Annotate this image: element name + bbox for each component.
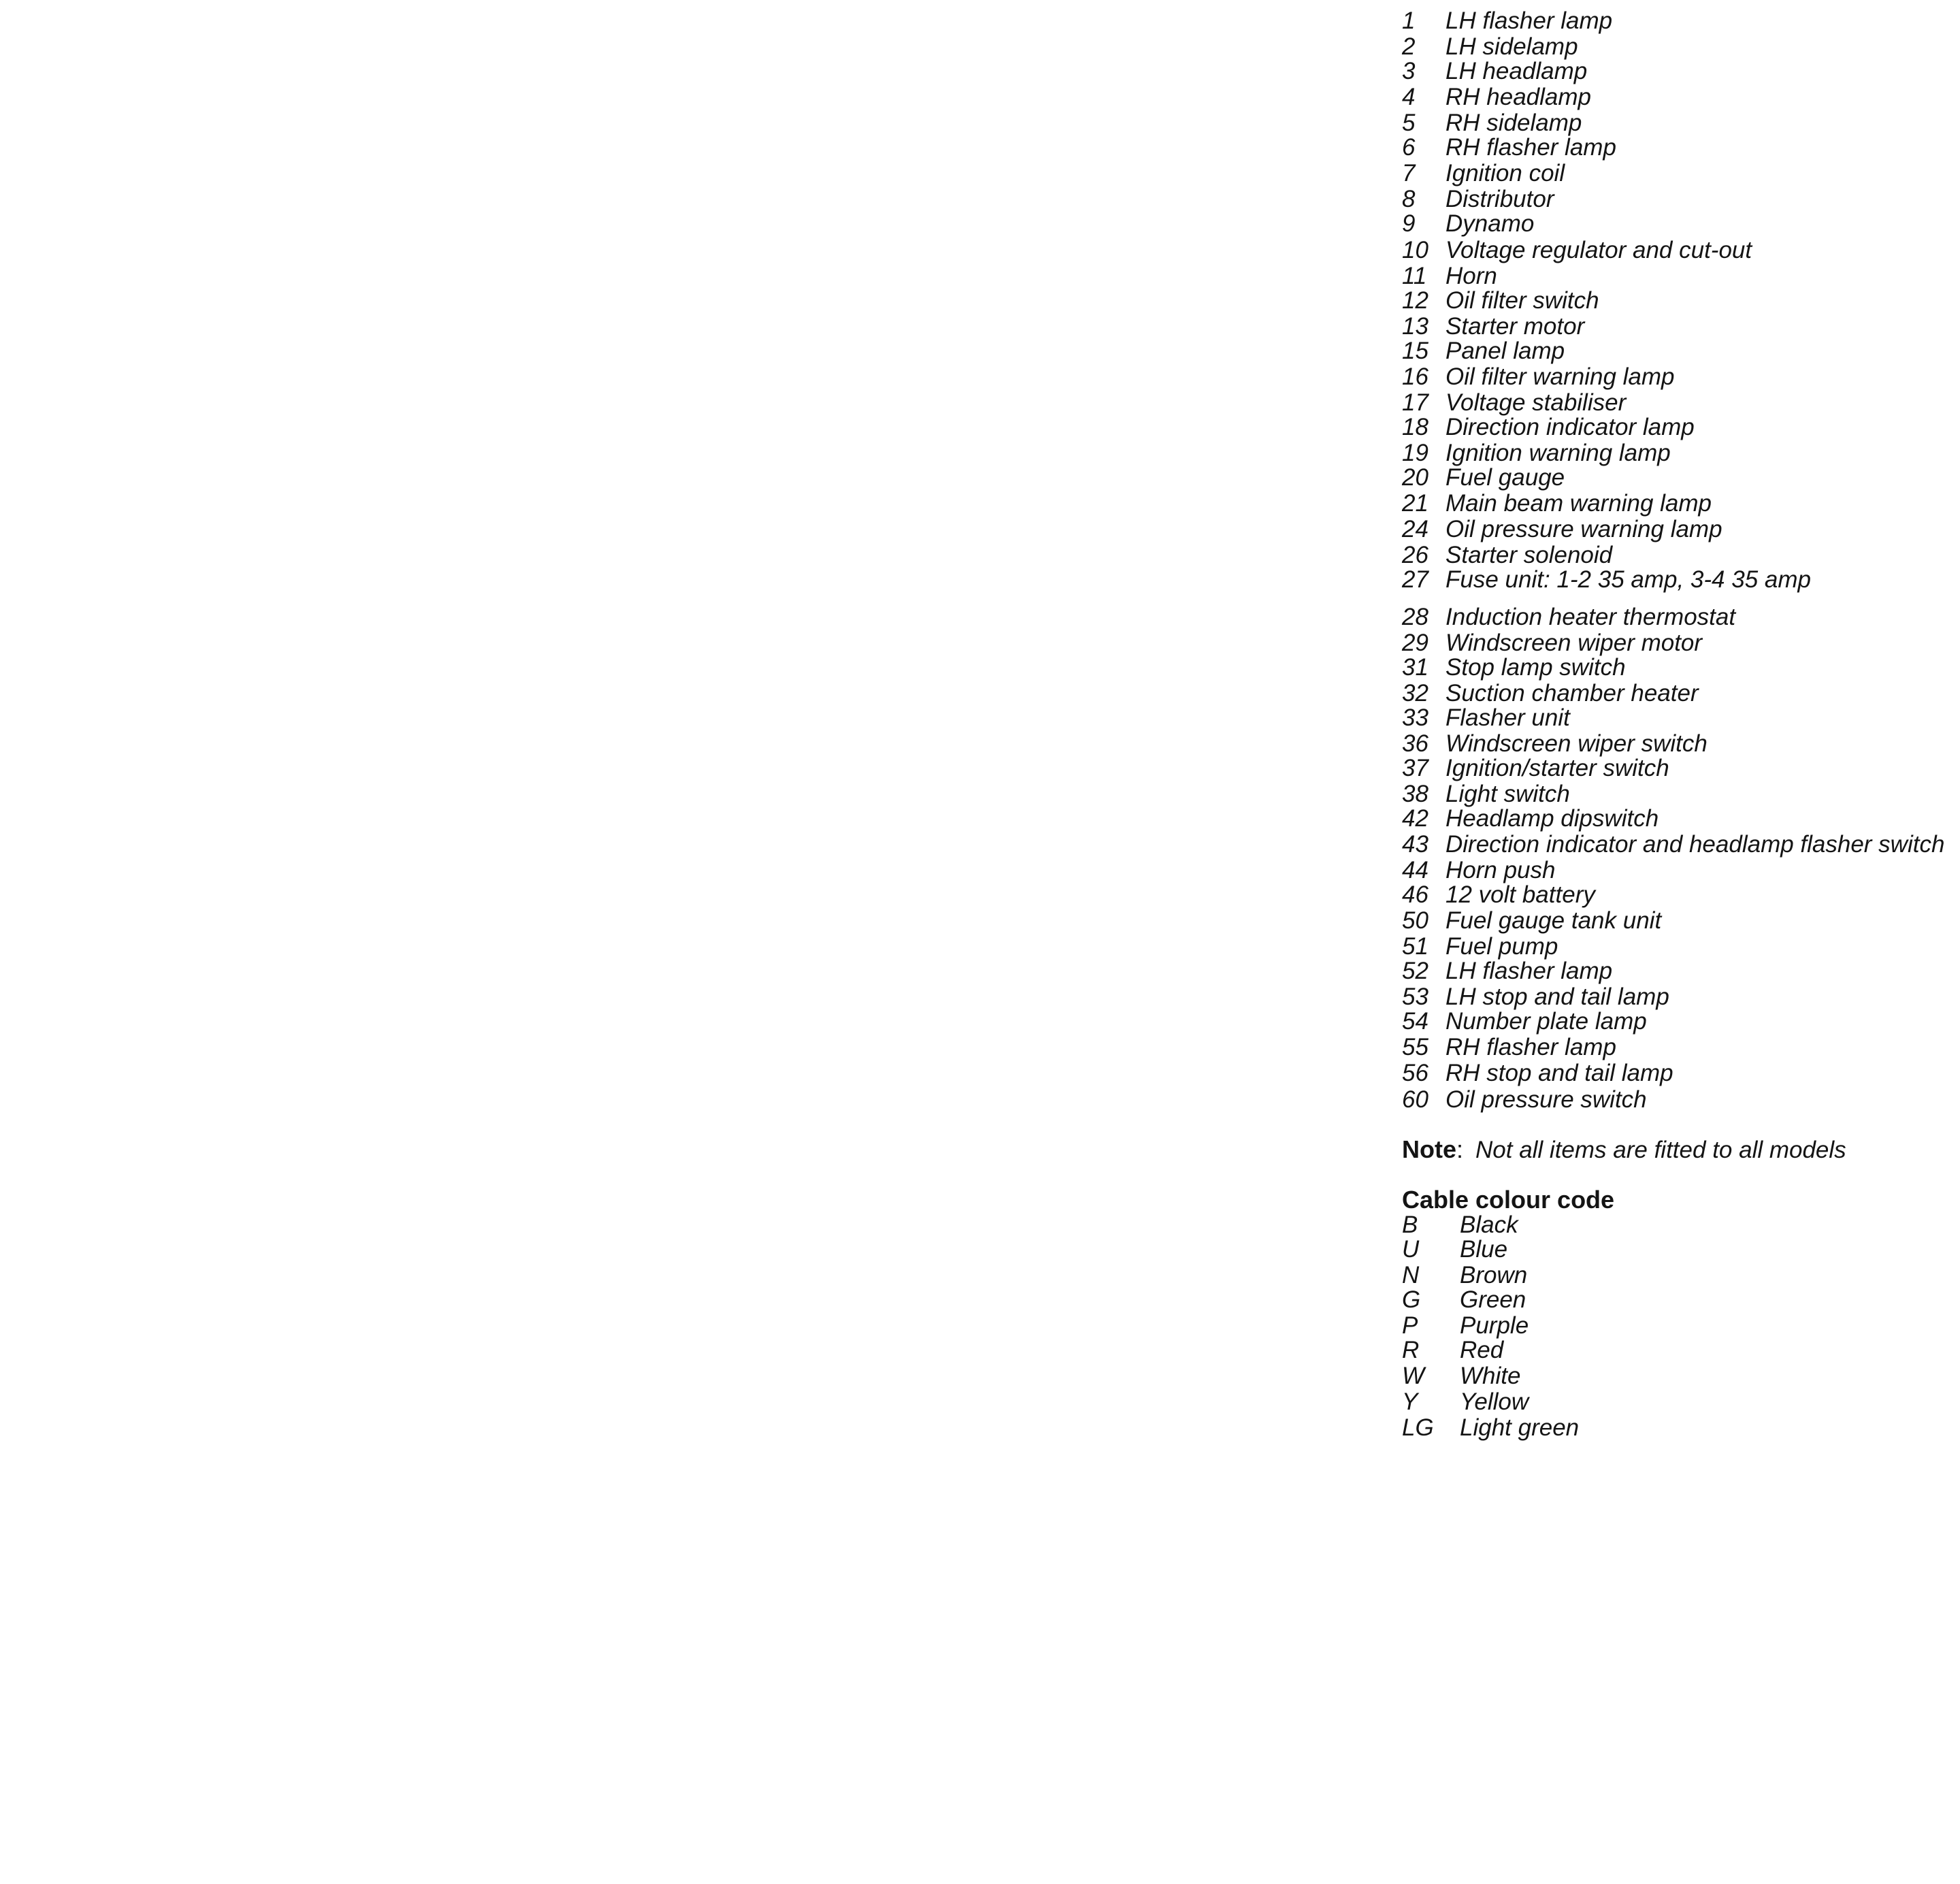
svg-text:27: 27	[1401, 566, 1429, 593]
svg-text:Note:: Note:	[1402, 1135, 1463, 1163]
svg-text:Brown: Brown	[1460, 1262, 1527, 1288]
svg-text:Oil pressure warning lamp: Oil pressure warning lamp	[1445, 516, 1722, 542]
svg-text:11: 11	[1402, 263, 1426, 289]
svg-text:5: 5	[1402, 110, 1416, 136]
svg-text:56: 56	[1402, 1060, 1428, 1086]
svg-text:Starter solenoid: Starter solenoid	[1445, 542, 1614, 568]
svg-text:N: N	[1402, 1262, 1420, 1288]
svg-text:53: 53	[1402, 984, 1428, 1010]
svg-text:43: 43	[1402, 831, 1428, 858]
svg-text:Stop lamp switch: Stop lamp switch	[1445, 654, 1626, 681]
svg-text:51: 51	[1402, 933, 1428, 960]
svg-text:RH sidelamp: RH sidelamp	[1445, 110, 1582, 136]
svg-text:RH headlamp: RH headlamp	[1445, 84, 1591, 110]
svg-text:42: 42	[1402, 805, 1428, 832]
svg-text:Windscreen wiper motor: Windscreen wiper motor	[1445, 630, 1703, 656]
svg-text:Panel lamp: Panel lamp	[1445, 338, 1565, 364]
svg-text:18: 18	[1402, 414, 1428, 440]
svg-text:Main beam warning lamp: Main beam warning lamp	[1445, 490, 1712, 517]
svg-text:54: 54	[1402, 1008, 1428, 1035]
svg-text:38: 38	[1402, 781, 1428, 807]
svg-text:LH sidelamp: LH sidelamp	[1445, 33, 1578, 60]
svg-text:9: 9	[1402, 210, 1415, 237]
svg-text:12 volt battery: 12 volt battery	[1445, 881, 1597, 908]
svg-text:G: G	[1402, 1286, 1420, 1313]
svg-text:6: 6	[1402, 134, 1416, 161]
svg-text:B: B	[1402, 1212, 1418, 1238]
svg-text:7: 7	[1402, 160, 1416, 186]
svg-text:U: U	[1402, 1236, 1420, 1263]
svg-text:R: R	[1402, 1337, 1419, 1363]
svg-text:33: 33	[1402, 704, 1428, 731]
schematic	[0, 0, 1, 1]
svg-text:44: 44	[1402, 857, 1428, 883]
svg-text:Cable colour code: Cable colour code	[1402, 1186, 1614, 1214]
svg-text:LH flasher lamp: LH flasher lamp	[1445, 7, 1612, 34]
svg-text:Light switch: Light switch	[1445, 781, 1570, 807]
svg-text:Blue: Blue	[1460, 1236, 1507, 1263]
svg-text:31: 31	[1402, 654, 1428, 681]
svg-text:LH stop and tail lamp: LH stop and tail lamp	[1445, 984, 1669, 1010]
svg-text:Red: Red	[1460, 1337, 1505, 1363]
svg-text:Green: Green	[1460, 1286, 1526, 1313]
svg-text:3: 3	[1402, 58, 1416, 84]
svg-text:Flasher unit: Flasher unit	[1445, 704, 1571, 731]
svg-text:37: 37	[1402, 755, 1429, 781]
svg-text:28: 28	[1401, 604, 1428, 630]
svg-text:26: 26	[1401, 542, 1428, 568]
svg-text:46: 46	[1402, 881, 1428, 908]
svg-text:32: 32	[1402, 680, 1428, 706]
svg-text:Light green: Light green	[1460, 1414, 1579, 1441]
svg-text:Windscreen wiper switch: Windscreen wiper switch	[1445, 730, 1708, 757]
svg-text:Direction indicator and headla: Direction indicator and headlamp flasher…	[1445, 831, 1944, 858]
svg-text:RH stop and tail lamp: RH stop and tail lamp	[1445, 1060, 1673, 1086]
svg-text:Ignition/starter switch: Ignition/starter switch	[1445, 755, 1669, 781]
svg-text:52: 52	[1402, 958, 1428, 984]
svg-text:LH flasher lamp: LH flasher lamp	[1445, 958, 1612, 984]
svg-text:24: 24	[1401, 516, 1428, 542]
svg-text:Fuel gauge: Fuel gauge	[1445, 464, 1565, 491]
svg-text:12: 12	[1402, 287, 1428, 314]
svg-text:Oil filter warning lamp: Oil filter warning lamp	[1445, 363, 1675, 390]
svg-text:LG: LG	[1402, 1414, 1434, 1441]
svg-text:Induction heater thermostat: Induction heater thermostat	[1445, 604, 1736, 630]
svg-text:Not all items are fitted to al: Not all items are fitted to all models	[1475, 1137, 1846, 1163]
svg-text:Number plate lamp: Number plate lamp	[1445, 1008, 1647, 1035]
svg-text:21: 21	[1401, 490, 1428, 517]
svg-text:W: W	[1402, 1363, 1426, 1389]
svg-text:Distributor: Distributor	[1445, 186, 1555, 212]
svg-text:Starter motor: Starter motor	[1445, 313, 1586, 340]
svg-text:RH flasher lamp: RH flasher lamp	[1445, 1034, 1616, 1060]
svg-text:13: 13	[1402, 313, 1428, 340]
svg-text:Horn push: Horn push	[1445, 857, 1555, 883]
svg-text:10: 10	[1402, 237, 1428, 263]
svg-text:P: P	[1402, 1312, 1418, 1339]
svg-text:Y: Y	[1402, 1388, 1420, 1415]
svg-text:Ignition coil: Ignition coil	[1445, 160, 1565, 186]
svg-text:Direction indicator lamp: Direction indicator lamp	[1445, 414, 1695, 440]
svg-text:4: 4	[1402, 84, 1415, 110]
svg-text:Yellow: Yellow	[1460, 1388, 1531, 1415]
svg-text:Oil filter switch: Oil filter switch	[1445, 287, 1599, 314]
svg-text:Voltage regulator and cut-out: Voltage regulator and cut-out	[1445, 237, 1752, 263]
svg-text:1: 1	[1402, 7, 1415, 34]
svg-text:White: White	[1460, 1363, 1520, 1389]
svg-text:Ignition warning lamp: Ignition warning lamp	[1445, 440, 1671, 466]
svg-text:Oil pressure switch: Oil pressure switch	[1445, 1086, 1647, 1113]
svg-text:60: 60	[1402, 1086, 1428, 1113]
svg-text:8: 8	[1402, 186, 1416, 212]
svg-text:15: 15	[1402, 338, 1428, 364]
svg-text:29: 29	[1401, 630, 1428, 656]
legend list right side	[1401, 7, 1944, 1441]
svg-text:RH flasher lamp: RH flasher lamp	[1445, 134, 1616, 161]
svg-text:Purple: Purple	[1460, 1312, 1529, 1339]
svg-text:Fuel pump: Fuel pump	[1445, 933, 1558, 960]
svg-text:Fuel gauge tank unit: Fuel gauge tank unit	[1445, 907, 1662, 934]
svg-text:Horn: Horn	[1445, 263, 1497, 289]
svg-text:Headlamp dipswitch: Headlamp dipswitch	[1445, 805, 1659, 832]
svg-text:36: 36	[1402, 730, 1428, 757]
svg-text:17: 17	[1402, 389, 1429, 416]
svg-text:16: 16	[1402, 363, 1428, 390]
svg-text:20: 20	[1401, 464, 1428, 491]
svg-text:19: 19	[1402, 440, 1428, 466]
svg-text:Fuse unit: 1-2 35 amp, 3-4 35: Fuse unit: 1-2 35 amp, 3-4 35 amp	[1445, 566, 1811, 593]
svg-text:Black: Black	[1460, 1212, 1519, 1238]
svg-text:50: 50	[1402, 907, 1428, 934]
svg-text:55: 55	[1402, 1034, 1428, 1060]
svg-text:Dynamo: Dynamo	[1445, 210, 1534, 237]
svg-text:LH headlamp: LH headlamp	[1445, 58, 1587, 84]
svg-text:Suction chamber heater: Suction chamber heater	[1445, 680, 1699, 706]
svg-text:2: 2	[1401, 33, 1415, 60]
svg-text:Voltage stabiliser: Voltage stabiliser	[1445, 389, 1627, 416]
